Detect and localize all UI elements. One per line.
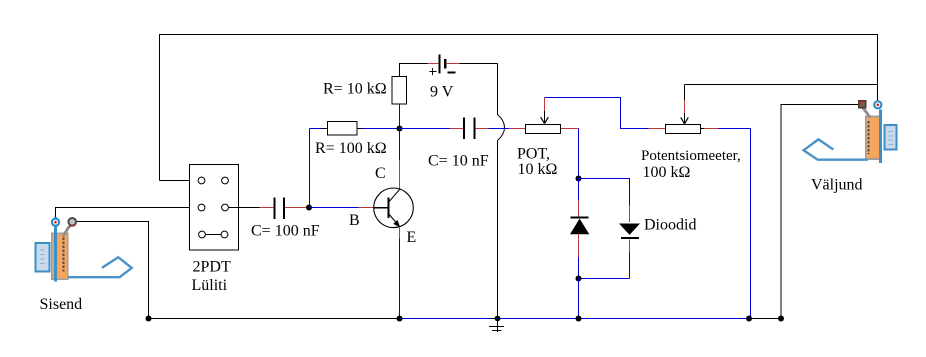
capacitor C1 plate left: [274, 198, 276, 220]
wire: battery drop with hop over signal: [498, 64, 505, 319]
resistor R2 body: [328, 122, 358, 135]
wire: POT1 right lead down to diodes: [561, 128, 579, 130]
switch pin 5: [199, 231, 206, 238]
POT1 wiper arrow: [544, 98, 546, 112]
battery minus sign: [448, 72, 456, 74]
resistor R1 body: [392, 77, 407, 105]
switch pin 1: [198, 177, 205, 184]
wire: bypass rail from switch pole to output tip: [160, 35, 878, 181]
potentiometer POT1 body: [526, 125, 561, 134]
wire: diode top connector: [579, 179, 630, 206]
wire: collector up to node: [399, 160, 401, 188]
output jack inner dashes: [868, 121, 870, 154]
wire: diode bottom connector: [579, 278, 630, 280]
output jack tip terminal: [874, 101, 881, 108]
svg-text:POT,: POT,: [517, 146, 550, 163]
wire: emitter down to rail: [399, 228, 401, 239]
input jack stem: [54, 217, 57, 282]
input jack sleeve lug: [63, 227, 69, 237]
wire: switch pin4 to C100n: [228, 207, 259, 209]
svg-text:R= 10 kΩ: R= 10 kΩ: [323, 81, 387, 98]
wire: ground rail middle segment: [400, 318, 491, 320]
svg-text:9 V: 9 V: [430, 84, 454, 101]
wire: switch pole1 lead: [160, 180, 199, 182]
output jack plug lines: [888, 131, 893, 133]
capacitor C2 plate left: [463, 118, 465, 140]
wire: base node to transistor base: [309, 207, 359, 209]
switch 2PDT box: [190, 165, 239, 251]
wire: C10n to POT (under hop): [476, 128, 489, 130]
switch pin 3: [198, 204, 205, 211]
diode D1 cathode bar: [571, 217, 589, 219]
wire: battery minus lead: [446, 63, 460, 65]
battery B1 minus plate: [444, 59, 447, 69]
node: diode top junction dot: [576, 176, 582, 182]
wire: right diode column bottom: [629, 240, 631, 253]
wire: left diode column bottom: [578, 235, 580, 258]
node: rail dot diodes: [576, 316, 582, 322]
input jack sleeve terminal: [68, 218, 76, 226]
wire: C100n to base node: [285, 207, 309, 209]
svg-text:Lüliti: Lüliti: [192, 277, 228, 294]
wire: ground rail right segment: [749, 318, 781, 320]
input jack plug block: [35, 243, 49, 271]
transistor Q1 base lead: [374, 207, 389, 209]
wire: R100k right lead: [357, 128, 362, 130]
switch pin 4: [222, 204, 229, 211]
svg-text:C: C: [375, 165, 386, 182]
wire: input sleeve to ground rail: [76, 222, 149, 319]
svg-text:R= 100 kΩ: R= 100 kΩ: [315, 140, 387, 157]
POT2 wiper arrow: [684, 85, 686, 101]
svg-text:10 kΩ: 10 kΩ: [518, 161, 558, 178]
wire: left diode column top: [578, 179, 580, 201]
node: rail dot output sleeve: [778, 316, 784, 322]
node: rail dot battery: [495, 316, 501, 322]
capacitor C2 plate right: [474, 118, 476, 140]
output jack plug block: [884, 125, 896, 149]
output jack stem: [879, 110, 882, 164]
svg-text:2PDT: 2PDT: [193, 259, 231, 276]
svg-text:C= 10 nF: C= 10 nF: [428, 153, 489, 170]
switch jumper pin5-pin6: [206, 234, 222, 236]
wire: POT1 wiper to 100k pot left: [545, 98, 649, 129]
wire: input tip to switch middle-left pin: [56, 208, 199, 219]
wire: diode node to rail: [578, 279, 580, 319]
capacitor C1 plate right: [283, 198, 285, 220]
output jack sleeve terminal: [859, 101, 866, 108]
diode D2 cathode bar: [621, 237, 639, 239]
output jack body: [866, 117, 881, 160]
wire: R10k top to battery: [400, 64, 428, 77]
input jack plug lines: [40, 249, 45, 251]
node: diode bottom junction dot: [576, 276, 582, 282]
input jack tip terminal: [52, 219, 59, 226]
wire: POT2 right lead to rail: [701, 128, 705, 130]
wire: POT2 wiper rail to output tip column: [685, 84, 878, 86]
wire: output sleeve to rail: [781, 105, 859, 319]
input jack inner dashes: [63, 238, 65, 272]
transistor Q1 emitter stroke: [389, 214, 399, 225]
svg-text:Väljund: Väljund: [811, 177, 863, 194]
wire: R10k bottom lead: [399, 104, 401, 129]
wire: node to C10n: [400, 128, 450, 130]
node: collector junction dot: [397, 126, 403, 132]
output jack cable hook: [804, 139, 868, 159]
svg-text:Dioodid: Dioodid: [644, 217, 696, 234]
node: base junction dot: [306, 205, 312, 211]
node: rail dot input: [146, 316, 152, 322]
svg-text:B: B: [349, 212, 360, 229]
node: rail dot pot100k: [746, 316, 752, 322]
switch pin 2: [222, 177, 229, 184]
wire: base node up to R100k: [309, 129, 311, 208]
potentiometer POT2 body: [666, 125, 701, 134]
battery B1 plus plate: [439, 55, 441, 74]
diode D2 triangle: [619, 224, 640, 235]
input jack cable hook: [68, 257, 132, 277]
svg-text:Potentsiomeeter,: Potentsiomeeter,: [641, 148, 741, 164]
svg-text:100 kΩ: 100 kΩ: [643, 164, 691, 181]
wire: R100k left lead: [310, 128, 322, 130]
svg-text:Sisend: Sisend: [40, 296, 83, 313]
battery plus sign: [430, 71, 437, 73]
wire: ground rail left segment: [149, 318, 400, 320]
wire: right diode column top: [629, 205, 631, 222]
svg-text:C= 100 nF: C= 100 nF: [251, 223, 320, 240]
input jack body: [52, 233, 68, 279]
transistor Q1 emitter arrowhead: [393, 220, 400, 227]
transistor Q1 circle: [374, 188, 414, 228]
svg-text:E: E: [407, 229, 417, 246]
switch pin 6: [221, 231, 228, 238]
diode D1 triangle: [570, 219, 589, 235]
transistor Q1 collector stroke: [389, 189, 401, 203]
output jack sleeve lug: [863, 108, 870, 118]
transistor Q1 base bar: [388, 198, 390, 219]
ground symbol: [497, 319, 499, 333]
node: rail dot emitter: [397, 316, 403, 322]
